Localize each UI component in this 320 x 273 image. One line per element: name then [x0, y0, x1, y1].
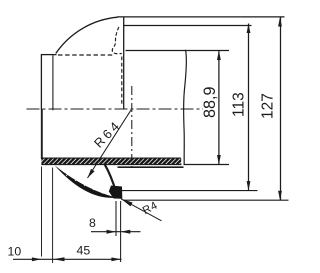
- svg-text:8: 8: [89, 216, 96, 230]
- svg-text:113: 113: [231, 92, 248, 117]
- svg-text:45: 45: [77, 244, 91, 258]
- svg-text:10: 10: [8, 245, 22, 259]
- svg-text:127: 127: [260, 93, 277, 119]
- svg-text:88,9: 88,9: [201, 86, 219, 118]
